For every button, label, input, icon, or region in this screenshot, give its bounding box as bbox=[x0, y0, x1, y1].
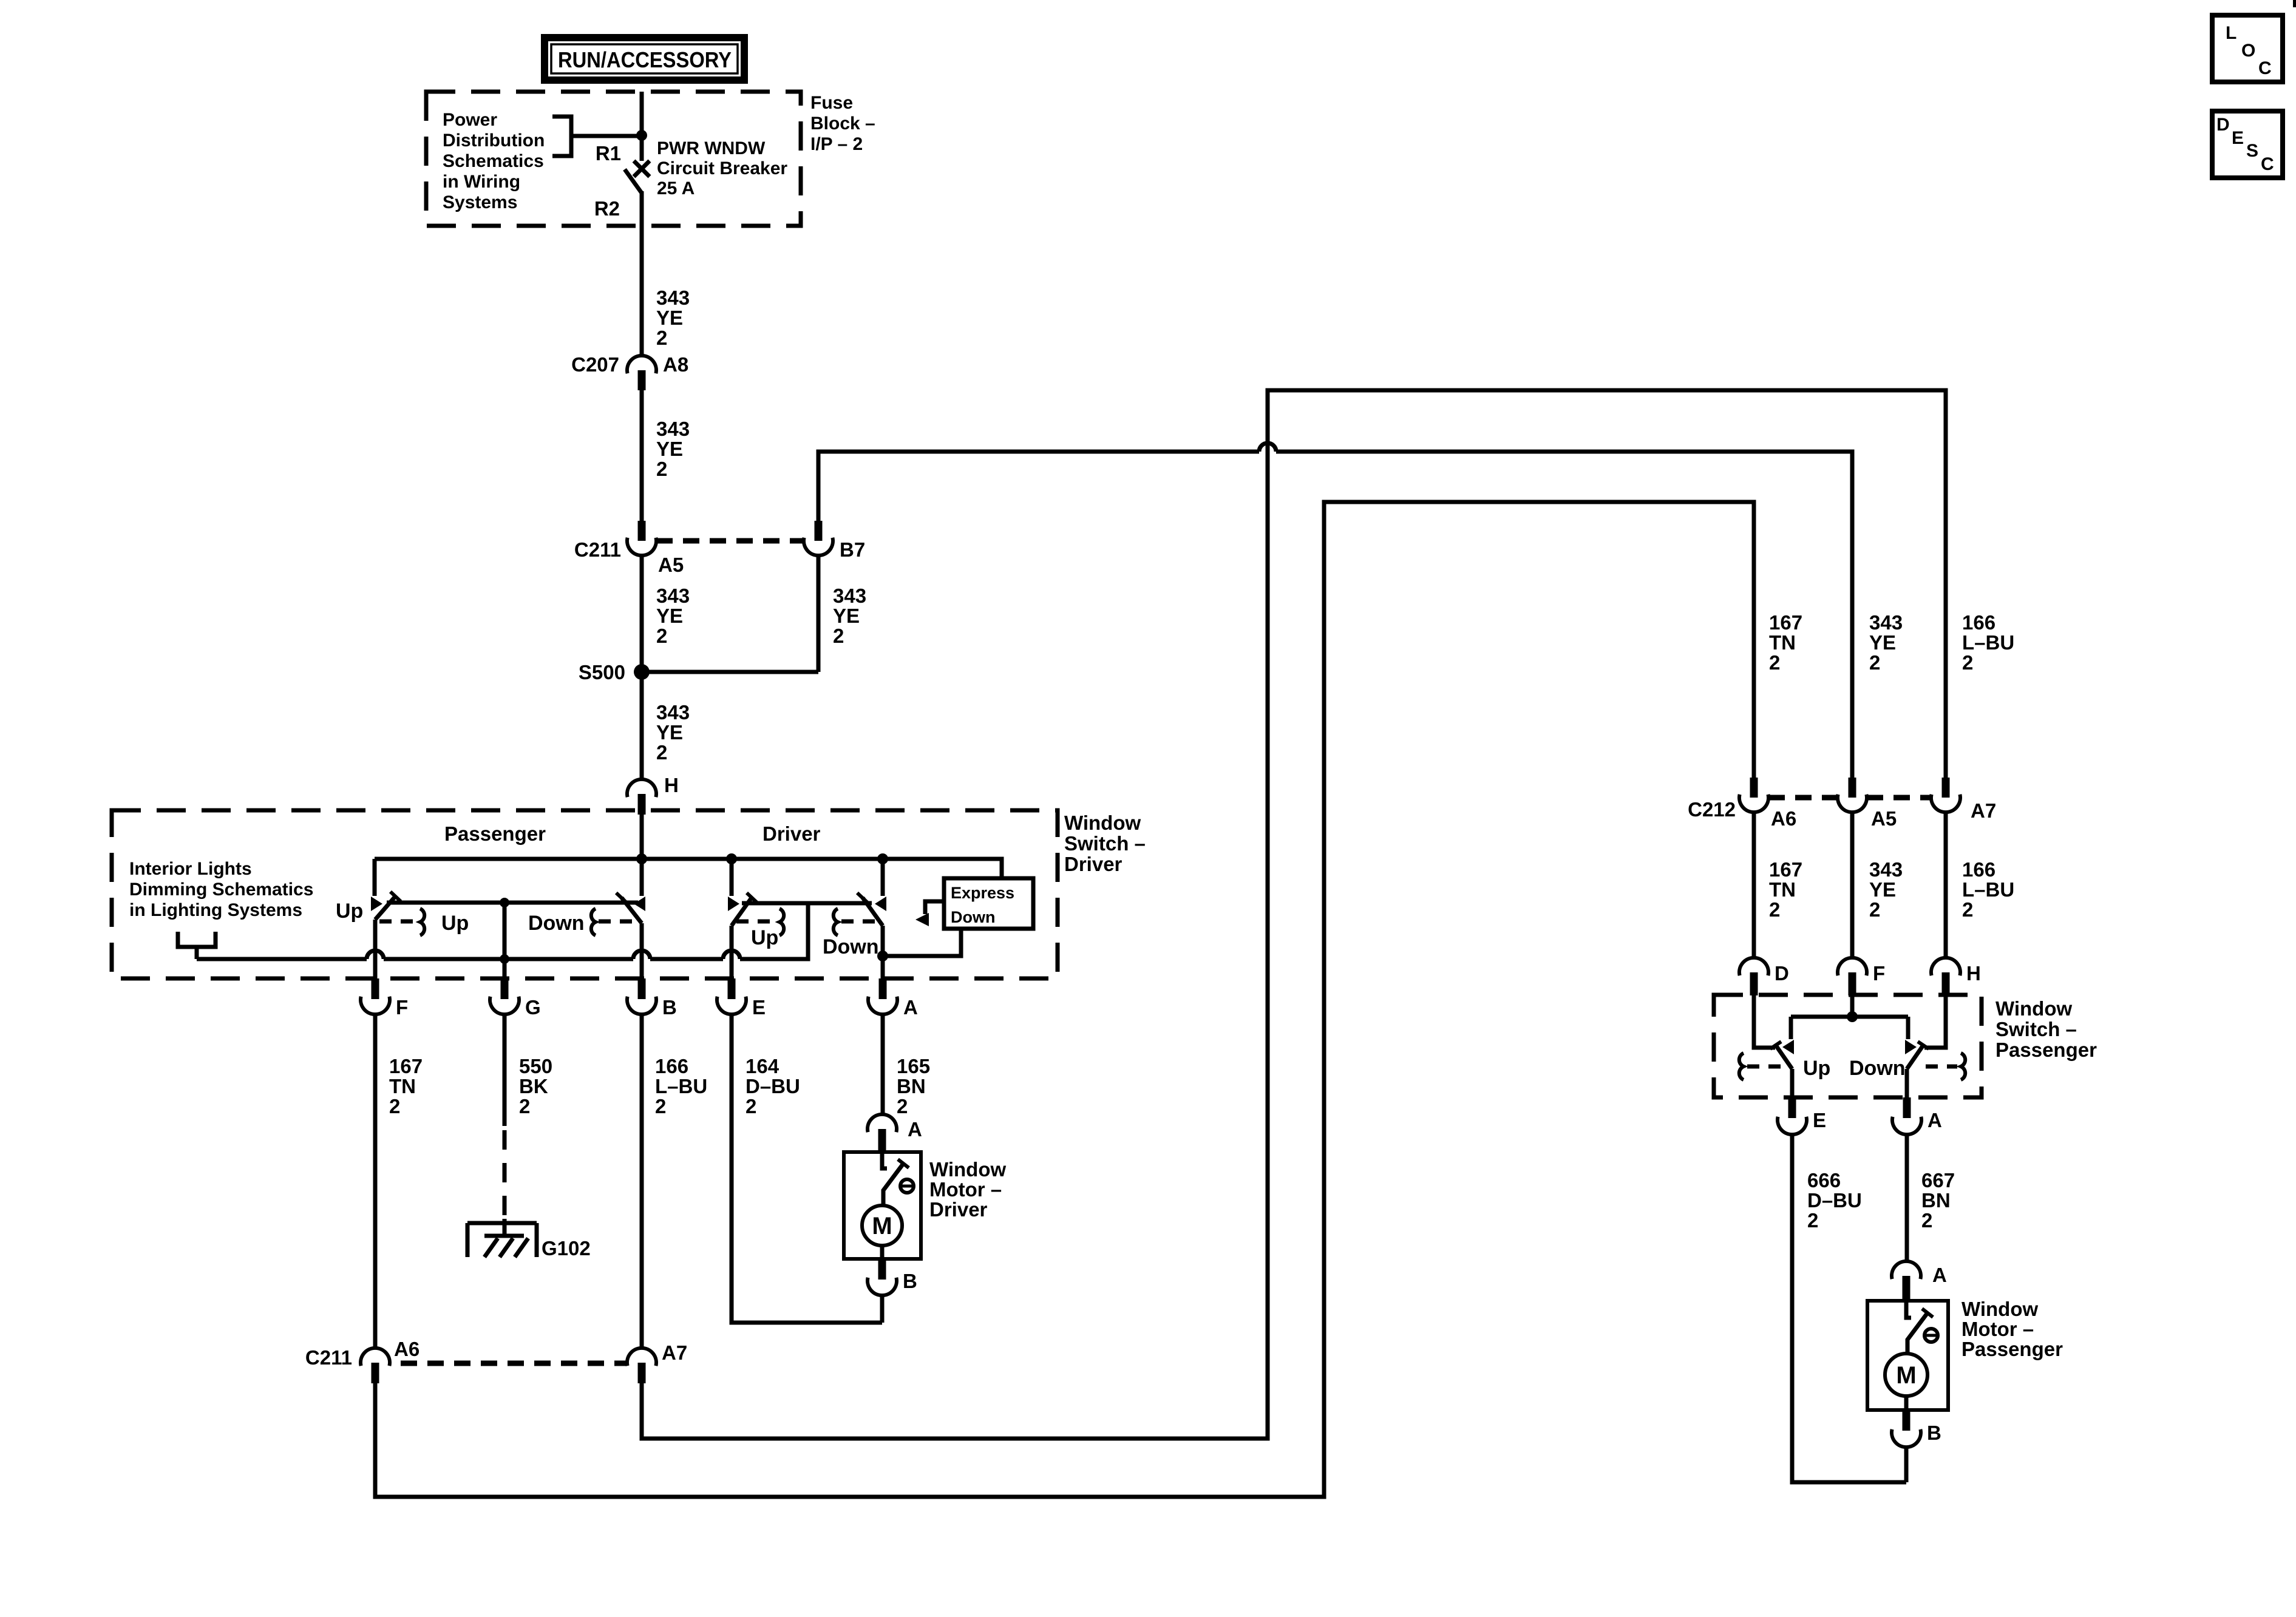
svg-text:YE: YE bbox=[656, 438, 683, 460]
svg-text:Window: Window bbox=[1064, 812, 1141, 834]
svg-text:A5: A5 bbox=[1871, 807, 1897, 830]
svg-text:I/P – 2: I/P – 2 bbox=[810, 134, 863, 154]
svg-text:667: 667 bbox=[1921, 1169, 1955, 1192]
svg-text:Interior Lights: Interior Lights bbox=[129, 859, 252, 879]
svg-text:B: B bbox=[903, 1270, 917, 1292]
svg-text:S: S bbox=[2246, 141, 2258, 161]
svg-text:D–BU: D–BU bbox=[1807, 1189, 1862, 1212]
svg-text:2: 2 bbox=[1869, 898, 1880, 921]
svg-text:A: A bbox=[908, 1118, 922, 1141]
svg-text:2: 2 bbox=[1921, 1209, 1932, 1232]
svg-text:Motor –: Motor – bbox=[1961, 1318, 2034, 1340]
svg-text:Driver: Driver bbox=[1064, 853, 1123, 875]
svg-text:YE: YE bbox=[1869, 631, 1896, 654]
svg-text:Systems: Systems bbox=[443, 192, 517, 212]
svg-text:YE: YE bbox=[833, 605, 860, 627]
svg-text:D: D bbox=[2216, 115, 2230, 135]
svg-text:550: 550 bbox=[519, 1055, 552, 1077]
svg-text:RUN/ACCESSORY: RUN/ACCESSORY bbox=[558, 47, 732, 72]
svg-text:25 A: 25 A bbox=[657, 178, 695, 198]
svg-text:167: 167 bbox=[1769, 611, 1802, 634]
svg-text:2: 2 bbox=[656, 458, 667, 480]
svg-text:M: M bbox=[872, 1213, 892, 1239]
svg-text:Window: Window bbox=[929, 1158, 1006, 1181]
svg-text:F: F bbox=[396, 996, 408, 1019]
svg-text:Circuit Breaker: Circuit Breaker bbox=[657, 158, 787, 178]
svg-text:TN: TN bbox=[389, 1075, 416, 1097]
svg-text:Up: Up bbox=[441, 912, 469, 935]
svg-text:167: 167 bbox=[1769, 858, 1802, 881]
svg-text:Window: Window bbox=[1995, 997, 2072, 1020]
svg-text:YE: YE bbox=[656, 605, 683, 627]
svg-text:R1: R1 bbox=[596, 142, 621, 164]
svg-text:PWR WNDW: PWR WNDW bbox=[657, 138, 766, 158]
svg-text:Block –: Block – bbox=[810, 114, 875, 134]
svg-text:343: 343 bbox=[833, 585, 866, 607]
svg-text:O: O bbox=[2241, 41, 2255, 61]
svg-text:2: 2 bbox=[1769, 651, 1780, 674]
svg-text:Down: Down bbox=[951, 908, 996, 926]
svg-text:2: 2 bbox=[389, 1095, 400, 1117]
svg-text:167: 167 bbox=[389, 1055, 423, 1077]
svg-text:Fuse: Fuse bbox=[810, 93, 853, 113]
svg-text:666: 666 bbox=[1807, 1169, 1841, 1192]
svg-text:BN: BN bbox=[1921, 1189, 1951, 1212]
svg-text:A7: A7 bbox=[662, 1341, 687, 1364]
svg-text:A5: A5 bbox=[658, 554, 684, 576]
svg-text:C211: C211 bbox=[305, 1346, 352, 1369]
svg-text:2: 2 bbox=[656, 741, 667, 764]
svg-text:Distribution: Distribution bbox=[443, 131, 545, 151]
svg-text:L–BU: L–BU bbox=[655, 1075, 707, 1097]
svg-text:2: 2 bbox=[1869, 651, 1880, 674]
svg-text:343: 343 bbox=[656, 418, 690, 440]
svg-text:2: 2 bbox=[746, 1095, 756, 1117]
svg-text:Passenger: Passenger bbox=[1961, 1338, 2063, 1360]
svg-text:Switch –: Switch – bbox=[1995, 1018, 2077, 1040]
svg-text:D: D bbox=[1775, 962, 1789, 985]
svg-text:343: 343 bbox=[656, 585, 690, 607]
svg-text:A: A bbox=[1927, 1109, 1942, 1131]
svg-text:Down: Down bbox=[1849, 1057, 1906, 1080]
svg-text:A: A bbox=[1932, 1264, 1947, 1286]
svg-text:2: 2 bbox=[1962, 651, 1973, 674]
svg-text:Passenger: Passenger bbox=[444, 822, 546, 845]
svg-text:Driver: Driver bbox=[929, 1198, 988, 1221]
svg-text:TN: TN bbox=[1769, 878, 1796, 901]
svg-text:Switch –: Switch – bbox=[1064, 832, 1146, 855]
svg-text:Schematics: Schematics bbox=[443, 151, 544, 171]
svg-text:Driver: Driver bbox=[763, 822, 821, 845]
svg-text:A7: A7 bbox=[1971, 799, 1996, 822]
svg-text:G102: G102 bbox=[542, 1237, 591, 1259]
svg-text:2: 2 bbox=[1807, 1209, 1818, 1232]
svg-text:2: 2 bbox=[897, 1095, 908, 1117]
svg-text:2: 2 bbox=[519, 1095, 530, 1117]
svg-text:C207: C207 bbox=[571, 353, 619, 376]
svg-text:E: E bbox=[1813, 1109, 1826, 1131]
svg-text:343: 343 bbox=[656, 286, 690, 309]
svg-text:Down: Down bbox=[528, 912, 585, 935]
svg-text:BK: BK bbox=[519, 1075, 548, 1097]
svg-text:C: C bbox=[2261, 154, 2274, 174]
svg-text:Express: Express bbox=[951, 884, 1014, 902]
svg-text:2: 2 bbox=[1769, 898, 1780, 921]
svg-text:H: H bbox=[1966, 962, 1981, 985]
svg-text:S500: S500 bbox=[579, 661, 625, 683]
svg-text:C: C bbox=[2258, 58, 2272, 78]
svg-text:166: 166 bbox=[1962, 611, 1995, 634]
svg-text:165: 165 bbox=[897, 1055, 930, 1077]
svg-text:in Lighting Systems: in Lighting Systems bbox=[129, 900, 302, 920]
svg-text:F: F bbox=[1873, 962, 1885, 985]
svg-text:2: 2 bbox=[655, 1095, 666, 1117]
svg-text:2: 2 bbox=[833, 625, 844, 647]
svg-text:BN: BN bbox=[897, 1075, 926, 1097]
svg-text:Power: Power bbox=[443, 110, 497, 130]
svg-text:Up: Up bbox=[336, 900, 363, 923]
svg-text:M: M bbox=[1896, 1362, 1916, 1389]
svg-text:2: 2 bbox=[656, 327, 667, 349]
svg-text:G: G bbox=[525, 996, 541, 1019]
svg-text:Dimming Schematics: Dimming Schematics bbox=[129, 880, 313, 900]
svg-text:Passenger: Passenger bbox=[1995, 1039, 2097, 1061]
svg-text:A6: A6 bbox=[1771, 807, 1796, 830]
svg-text:YE: YE bbox=[656, 721, 683, 744]
svg-text:YE: YE bbox=[1869, 878, 1896, 901]
svg-text:166: 166 bbox=[655, 1055, 688, 1077]
svg-text:2: 2 bbox=[656, 625, 667, 647]
svg-text:C211: C211 bbox=[574, 538, 621, 561]
svg-text:166: 166 bbox=[1962, 858, 1995, 881]
svg-text:YE: YE bbox=[656, 307, 683, 329]
svg-text:Up: Up bbox=[1803, 1057, 1830, 1080]
svg-text:343: 343 bbox=[656, 701, 690, 724]
svg-text:Up: Up bbox=[751, 926, 778, 949]
svg-text:B7: B7 bbox=[840, 538, 865, 561]
svg-text:343: 343 bbox=[1869, 611, 1903, 634]
svg-text:in Wiring: in Wiring bbox=[443, 172, 520, 192]
svg-text:Window: Window bbox=[1961, 1298, 2038, 1320]
svg-text:D–BU: D–BU bbox=[746, 1075, 800, 1097]
svg-text:164: 164 bbox=[746, 1055, 779, 1077]
svg-text:H: H bbox=[664, 774, 679, 796]
svg-text:A8: A8 bbox=[663, 353, 688, 376]
svg-text:B: B bbox=[1927, 1422, 1941, 1444]
svg-text:A: A bbox=[903, 996, 918, 1019]
svg-text:E: E bbox=[752, 996, 766, 1019]
svg-text:Down: Down bbox=[823, 935, 879, 958]
svg-text:Motor –: Motor – bbox=[929, 1178, 1002, 1201]
svg-text:2: 2 bbox=[1962, 898, 1973, 921]
svg-text:B: B bbox=[662, 996, 677, 1019]
svg-text:343: 343 bbox=[1869, 858, 1903, 881]
svg-text:TN: TN bbox=[1769, 631, 1796, 654]
svg-text:L: L bbox=[2226, 23, 2237, 43]
svg-text:C212: C212 bbox=[1688, 798, 1736, 821]
svg-text:R2: R2 bbox=[594, 197, 620, 220]
svg-text:L–BU: L–BU bbox=[1962, 631, 2014, 654]
svg-text:E: E bbox=[2232, 128, 2244, 148]
svg-text:A6: A6 bbox=[394, 1338, 419, 1360]
svg-text:L–BU: L–BU bbox=[1962, 878, 2014, 901]
